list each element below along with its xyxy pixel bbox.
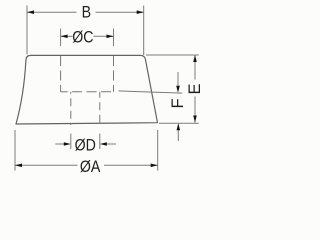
dimension B extension line right (143, 6, 145, 56)
dimension ØC line (61, 35, 73, 37)
dimension F lower stub with up arrow (177, 129, 179, 141)
part outline (truncated-cone foot, side view) (16, 55, 158, 124)
svg-text:ØD: ØD (75, 137, 96, 155)
dimension F upper stub with down arrow (177, 72, 179, 87)
dimension ØA line (15, 164, 78, 166)
dimension ØA extension line right (157, 130, 159, 171)
hidden counterbore ØC left wall (60, 56, 62, 92)
hidden hole ØD right wall (99, 92, 101, 127)
svg-text:ØC: ØC (72, 28, 93, 46)
dimension ØC extension stub left (60, 29, 62, 47)
dimension ØD left leader with arrow (55, 143, 64, 145)
dimension E top extension line (146, 54, 199, 56)
dimension ØC arrow left (61, 35, 68, 39)
dimension ØA arrow left (15, 164, 22, 168)
dimension E line (194, 55, 196, 80)
dimension ØC arrow right (107, 35, 114, 39)
dimension F top extension line (119, 91, 183, 93)
dimension E arrow bottom (193, 116, 197, 123)
svg-text:B: B (82, 4, 91, 22)
dimension B arrow left (27, 10, 34, 14)
dimension ØD extension stub right (99, 134, 101, 150)
hidden hole ØD left wall (70, 92, 72, 125)
hidden counterbore ØC right wall (113, 56, 115, 92)
dimension ØD extension stub left (70, 134, 72, 150)
dimension ØA extension line left (14, 130, 16, 171)
dimension ØC extension stub right (113, 29, 115, 47)
svg-text:F: F (169, 98, 187, 108)
dimension E arrow top (193, 55, 197, 62)
dimension ØD right leader with arrow (106, 143, 116, 145)
dimension B line (27, 11, 77, 13)
dimension B extension line left (26, 6, 28, 55)
dimension B arrow right (137, 10, 144, 14)
dimension ØA arrow right (151, 164, 158, 168)
svg-text:ØA: ØA (80, 158, 101, 176)
hidden counterbore floor (61, 91, 114, 93)
shared bottom extension line (E and F) (159, 122, 199, 124)
svg-text:E: E (186, 83, 204, 94)
